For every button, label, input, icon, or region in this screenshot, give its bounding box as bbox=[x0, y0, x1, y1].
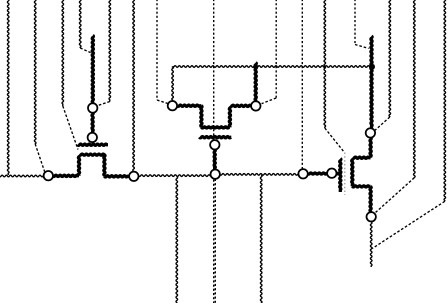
wire net-V12 diagonal bbox=[355, 45, 369, 49]
transistor Q2 channel with source-drain leads bbox=[177, 105, 251, 128]
wire bold node N9 to node N10 bbox=[308, 173, 328, 174]
node N4 bbox=[129, 172, 138, 181]
wire net-V13 diagonal bbox=[375, 117, 390, 130]
wire net-V11 stub beside gate bar bbox=[344, 153, 346, 196]
wire bold between node N1 and node N2 bbox=[92, 112, 93, 133]
wire bold vertical VDD drop right bbox=[371, 36, 372, 128]
wire top net left drop bbox=[172, 67, 174, 101]
junction dot at top net x255 bbox=[253, 64, 258, 69]
wire net-V3 diagonal bbox=[63, 106, 78, 150]
node N1 bbox=[88, 103, 97, 112]
node N8 bbox=[211, 170, 220, 179]
wire net-V10 vertical dashed bbox=[301, 0, 303, 169]
wire net-V8 vertical dashed full height bbox=[213, 0, 215, 303]
wire bottom rail left segment bbox=[0, 175, 44, 177]
wire net-V11 vertical bbox=[324, 0, 326, 128]
transistor Q2 gate bar bbox=[199, 137, 231, 138]
node N10 gate of Q3 bbox=[327, 169, 336, 178]
transistor Q3 gate bar bbox=[340, 159, 341, 193]
node N7 gate of Q2 bbox=[210, 140, 219, 149]
transistor Q3 channel with drain-source leads bbox=[352, 138, 372, 213]
wire net-V5 diagonal bbox=[98, 102, 110, 106]
wire net-V9 diagonal bbox=[262, 98, 277, 104]
wire net-V7 diagonal bbox=[157, 100, 168, 104]
wire net-V2 vertical bbox=[34, 0, 36, 144]
wire net-V12 vertical dashed bbox=[354, 0, 356, 45]
wire net-V2 diagonal bbox=[35, 144, 44, 172]
transistor Q2 gate lead bbox=[214, 149, 215, 169]
wire net-V15 vertical bbox=[444, 0, 446, 201]
node N6 bbox=[251, 101, 260, 110]
wire net-V9 vertical dashed bbox=[275, 0, 277, 98]
wire net-V11 diagonal bbox=[325, 128, 345, 152]
wire below node N12 bbox=[370, 222, 372, 267]
transistor Q3 gate lead bbox=[336, 172, 340, 176]
node N2 bbox=[88, 133, 97, 142]
wire net-V4 diagonal bbox=[80, 48, 90, 53]
wire net-V13 vertical bbox=[389, 0, 391, 117]
node N12 bbox=[367, 212, 376, 221]
node N3 bbox=[44, 171, 53, 180]
wire net-V4 vertical bbox=[79, 0, 81, 48]
wire bold gate stub of Q1 bbox=[92, 35, 93, 103]
wire drop below bottom rail x261 bbox=[260, 175, 262, 303]
wire net-V7 vertical dashed bbox=[156, 0, 158, 100]
wire bottom rail right segment bbox=[220, 174, 299, 176]
transistor Q1 channel with source-drain leads bbox=[53, 154, 129, 177]
wire bottom rail mid segment bbox=[139, 175, 211, 177]
wire net-V6 vertical bbox=[133, 0, 135, 171]
wire top horizontal net bbox=[172, 66, 372, 68]
junction dot at top net x372 bbox=[369, 64, 375, 70]
wire net-V15 diagonal bbox=[372, 201, 444, 248]
wire net-V5 vertical bbox=[109, 0, 111, 102]
wire drop below bottom rail x177 bbox=[176, 177, 178, 303]
transistor Q1 gate bar bbox=[78, 144, 109, 145]
wire net-V14 diagonal bbox=[376, 178, 415, 213]
wire net-V14 vertical bbox=[414, 0, 416, 178]
node N9 bbox=[298, 169, 307, 178]
wire net-V1 vertical bbox=[7, 0, 9, 175]
wire net-V3 vertical bbox=[62, 0, 64, 106]
wire bold drop to node N6 bbox=[255, 63, 256, 102]
wire drop below node N8 dashed bbox=[214, 179, 216, 303]
node N11 bbox=[366, 128, 375, 137]
node N5 bbox=[168, 101, 177, 110]
